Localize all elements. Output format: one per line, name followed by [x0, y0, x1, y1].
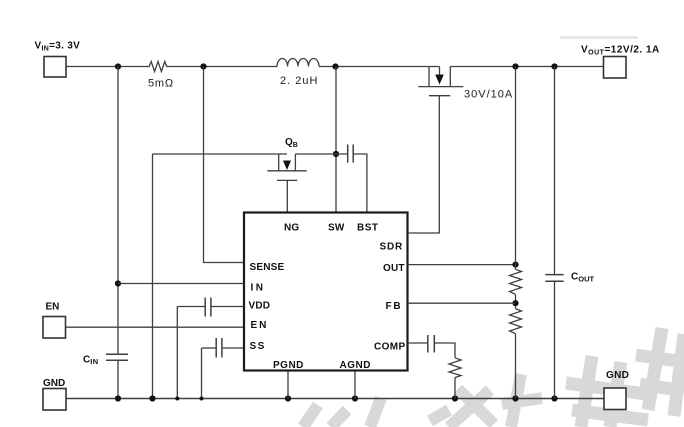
junction divider top [512, 63, 518, 69]
port GND right [604, 370, 629, 410]
svg-text:GND: GND [606, 370, 629, 381]
junction rail divider [512, 395, 518, 401]
svg-text:AGND: AGND [340, 360, 371, 371]
wire VDD cap right [211, 306, 244, 308]
wire input vertical upper [117, 67, 119, 355]
wire VDD cap left [177, 306, 205, 308]
svg-text:NG: NG [284, 223, 299, 234]
junction rail QB [149, 395, 155, 401]
junction rail CIN [115, 395, 121, 401]
wire SW vertical [335, 67, 337, 213]
wire R1 to R2 [515, 294, 517, 308]
junction rail Rcomp [452, 395, 458, 401]
wire IN [118, 283, 244, 285]
wire SDR [408, 96, 440, 233]
wire QB source to ground [152, 154, 154, 399]
wire QB drain [153, 153, 288, 155]
junction sense node [200, 63, 206, 69]
svg-text:30V/10A: 30V/10A [464, 89, 513, 101]
junction IN node [115, 280, 121, 286]
wire EN [66, 326, 245, 328]
svg-text:GND: GND [43, 378, 65, 389]
capacitor CSS [216, 338, 222, 358]
transistor Q1 30V/10A [418, 67, 513, 101]
svg-text:2. 2uH: 2. 2uH [280, 75, 318, 87]
capacitor CVDD [205, 298, 211, 317]
wire BST [353, 154, 367, 213]
svg-text:SDR: SDR [380, 242, 404, 253]
svg-text:BST: BST [357, 223, 379, 234]
wire OUT [408, 264, 516, 266]
junction FB node [512, 300, 518, 306]
port GND left [43, 378, 66, 410]
svg-text:PGND: PGND [273, 360, 304, 371]
resistor R2 [510, 309, 522, 334]
svg-text:VIN=3. 3V: VIN=3. 3V [35, 40, 81, 52]
junction SW/BST node [333, 151, 339, 157]
junction rail CSS [200, 397, 204, 401]
wire Q1 to VOUT [450, 66, 603, 68]
wire R2 to ground [515, 334, 517, 399]
svg-text:EN: EN [251, 320, 269, 331]
wire input vertical lower [117, 360, 119, 398]
resistor R1 [510, 269, 522, 294]
wire VDD left vertical [176, 307, 178, 399]
svg-text:5mΩ: 5mΩ [148, 78, 174, 90]
junction OUT node [512, 262, 518, 268]
capacitor COUT [545, 272, 594, 284]
wire Ccomp to Rcomp [434, 343, 455, 358]
wire SS cap right [222, 347, 244, 349]
watermark [303, 38, 684, 427]
IC U1 body [244, 213, 408, 371]
wire COMP [408, 342, 428, 344]
junction COUT top [551, 63, 557, 69]
ground rail [66, 398, 604, 400]
port EN [43, 302, 66, 338]
capacitor Ccomp [428, 335, 435, 353]
svg-text:COMP: COMP [374, 342, 406, 353]
wire divider top vertical [515, 67, 517, 270]
wire PGND [287, 371, 289, 399]
transistor QB [267, 137, 307, 180]
inductor L1 2.2uH [277, 59, 319, 88]
resistor Rcomp [449, 358, 461, 378]
wire FB [408, 302, 516, 304]
junction rail COUT [551, 395, 557, 401]
resistor Rs 5mOhm [147, 62, 174, 90]
wire SS left vertical [201, 348, 203, 399]
junction rail PGND [285, 395, 291, 401]
junction input node [115, 63, 121, 69]
wire NG [286, 180, 288, 212]
wire Rs to L1 [168, 66, 278, 68]
svg-text:SS: SS [250, 341, 266, 352]
wire COUT bottom vertical [554, 281, 556, 398]
wire VIN to Rs [66, 66, 147, 68]
svg-text:SW: SW [328, 223, 345, 234]
svg-text:SENSE: SENSE [250, 262, 285, 273]
junction rail AGND [352, 395, 358, 401]
capacitor CBST [348, 145, 354, 163]
wire AGND [354, 371, 356, 399]
svg-text:OUT: OUT [383, 263, 405, 274]
svg-text:IN: IN [251, 283, 266, 294]
port VIN [35, 40, 81, 77]
wire Rcomp to ground [454, 378, 456, 399]
svg-text:FB: FB [386, 301, 403, 312]
capacitor CIN [83, 354, 128, 366]
wire COUT top vertical [554, 67, 556, 275]
wire L1 to Q1 [319, 66, 440, 68]
svg-text:VDD: VDD [249, 301, 271, 312]
wire SENSE [204, 67, 245, 263]
junction rail CVDD [175, 397, 179, 401]
svg-text:EN: EN [46, 302, 60, 313]
wire QB to SW junction [295, 153, 347, 155]
wire SS cap left [202, 347, 217, 349]
port VOUT [581, 45, 660, 79]
svg-text:CIN: CIN [83, 354, 99, 366]
junction SW node top [332, 63, 338, 69]
